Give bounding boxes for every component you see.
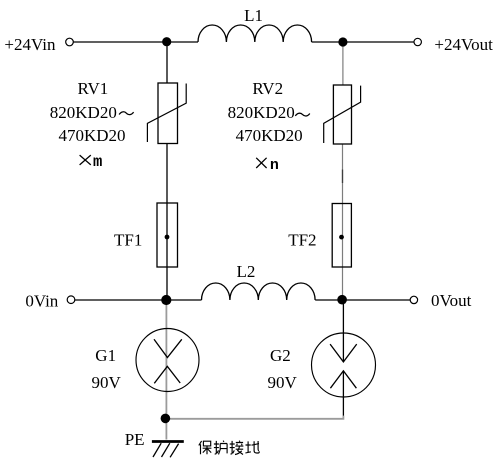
svg-text:+24Vin: +24Vin xyxy=(4,35,56,54)
svg-text:0Vin: 0Vin xyxy=(25,291,58,310)
svg-text:n: n xyxy=(270,157,279,174)
svg-text:90V: 90V xyxy=(267,373,297,392)
svg-text:TF1: TF1 xyxy=(114,230,142,249)
svg-text:0Vout: 0Vout xyxy=(431,291,472,310)
svg-text:RV1: RV1 xyxy=(78,79,109,98)
svg-text:470KD20: 470KD20 xyxy=(236,126,303,145)
svg-text:470KD20: 470KD20 xyxy=(58,126,125,145)
svg-text:L1: L1 xyxy=(244,6,263,25)
svg-text:G2: G2 xyxy=(270,346,291,365)
svg-text:820KD20: 820KD20 xyxy=(50,103,117,122)
svg-text:+24Vout: +24Vout xyxy=(434,35,493,54)
svg-text:G1: G1 xyxy=(95,346,116,365)
svg-text:TF2: TF2 xyxy=(288,230,316,249)
svg-text:820KD20: 820KD20 xyxy=(228,103,295,122)
svg-text:90V: 90V xyxy=(92,373,122,392)
svg-text:PE: PE xyxy=(125,430,145,449)
svg-text:RV2: RV2 xyxy=(252,79,283,98)
svg-text:m: m xyxy=(93,153,102,171)
svg-text:L2: L2 xyxy=(237,262,256,281)
